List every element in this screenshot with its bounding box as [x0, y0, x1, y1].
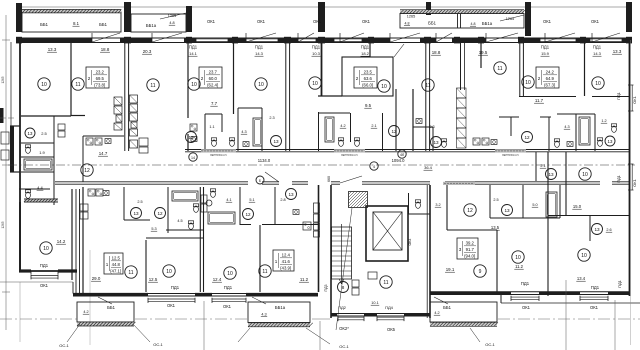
insulated wall segments	[201, 149, 236, 152]
bottom construction lines	[203, 301, 205, 350]
apartment info box 6	[273, 250, 294, 271]
svg-text:2: 2	[356, 76, 359, 81]
svg-text:13.3: 13.3	[613, 49, 622, 54]
top windows OK1	[196, 38, 228, 40]
wall y96 right apt	[519, 96, 576, 98]
circle 13	[25, 128, 35, 138]
wall x548	[547, 152, 549, 296]
svg-text:7.7: 7.7	[211, 101, 218, 106]
top exterior wall	[16, 37, 631, 39]
svg-text:13: 13	[288, 192, 294, 197]
svg-text:11: 11	[497, 66, 502, 72]
wall x275	[274, 187, 276, 225]
svg-text:ВЕНТБЛОК-0.5: ВЕНТБЛОК-0.5	[210, 155, 227, 157]
svg-text:10: 10	[515, 255, 521, 261]
top wall solid segments	[16, 38, 92, 42]
balcony door swing C	[252, 297, 266, 304]
svg-text:13: 13	[504, 208, 510, 213]
small room 2.6	[548, 215, 630, 217]
svg-text:ПД4: ПД4	[385, 305, 394, 310]
circle 10	[578, 249, 590, 261]
svg-text:44.8: 44.8	[112, 262, 121, 267]
svg-text:(67.3): (67.3)	[544, 82, 556, 87]
svg-text:ББ1а: ББ1а	[275, 305, 286, 310]
svg-text:13: 13	[433, 140, 439, 145]
left bay wall	[10, 126, 14, 172]
svg-text:(66.0): (66.0)	[362, 82, 374, 87]
svg-text:64.9: 64.9	[546, 76, 555, 81]
left bay fixture	[1, 132, 9, 144]
bathtub	[172, 191, 198, 201]
bottom dimension line y319	[0, 318, 77, 320]
svg-text:ПД1: ПД1	[312, 45, 321, 50]
svg-text:13: 13	[28, 131, 33, 136]
balcony door swing R	[434, 297, 448, 304]
toilet	[25, 190, 30, 193]
svg-text:ПД1: ПД1	[189, 45, 198, 50]
svg-text:ОК1: ОК1	[313, 19, 322, 24]
balcony BB1/BB1a top-right	[400, 14, 524, 29]
bath cluster 3 walls	[318, 112, 320, 151]
svg-text:ПД1: ПД1	[171, 285, 180, 290]
svg-text:4.3: 4.3	[261, 313, 266, 317]
svg-text:ОК1: ОК1	[257, 19, 266, 24]
svg-text:10: 10	[582, 172, 588, 178]
toilet	[611, 124, 616, 127]
svg-text:(43.9): (43.9)	[280, 265, 292, 270]
svg-text:10: 10	[525, 80, 531, 86]
svg-text:ОК5: ОК5	[387, 327, 396, 332]
toilet	[354, 138, 359, 141]
door swing corridor	[265, 172, 279, 182]
central axis line	[8, 164, 635, 166]
svg-text:4.2: 4.2	[434, 311, 439, 315]
svg-text:1265: 1265	[1, 221, 5, 228]
circle 9	[474, 265, 486, 277]
svg-text:11: 11	[75, 82, 80, 88]
svg-text:10: 10	[41, 82, 47, 88]
svg-text:ОК1: ОК1	[632, 178, 637, 186]
svg-text:ПД1: ПД1	[616, 174, 621, 183]
left wall face line	[10, 42, 12, 126]
svg-text:ВЕНТБЛОК-0.5: ВЕНТБЛОК-0.5	[341, 155, 358, 157]
balcony BB1 bottom-left	[77, 302, 134, 322]
room number circles top row	[38, 78, 50, 90]
svg-text:20.3: 20.3	[143, 49, 152, 54]
kitchen boxes apt2	[190, 124, 197, 131]
svg-text:ОС-1: ОС-1	[339, 344, 349, 349]
door swing wardrobe	[394, 44, 404, 57]
circle 10	[512, 251, 524, 263]
kitchen boxes bottom-left	[88, 189, 95, 196]
svg-text:660: 660	[327, 176, 331, 182]
vent boxes	[314, 203, 320, 213]
svg-text:24.2: 24.2	[546, 70, 555, 75]
right apt hall walls	[446, 185, 448, 230]
svg-text:ББ1: ББ1	[99, 22, 107, 27]
svg-text:ОК1: ОК1	[40, 283, 49, 288]
balcony BB1 top-left	[22, 12, 121, 32]
svg-text:ОК1: ОК1	[543, 19, 552, 24]
svg-text:2: 2	[201, 76, 204, 81]
svg-text:1094.0: 1094.0	[392, 158, 405, 163]
svg-text:19.5: 19.5	[479, 50, 488, 55]
svg-text:14.2: 14.2	[57, 239, 66, 244]
svg-text:39.2: 39.2	[466, 241, 475, 246]
toilet	[554, 139, 559, 142]
apartment info box 7	[457, 238, 478, 259]
svg-text:5.1: 5.1	[249, 198, 254, 202]
circle 10	[40, 242, 52, 254]
svg-text:2.1: 2.1	[371, 124, 376, 128]
svg-text:18.8: 18.8	[432, 50, 441, 55]
svg-text:12.4: 12.4	[282, 253, 291, 258]
circle 12	[243, 209, 254, 220]
svg-text:13: 13	[594, 227, 600, 232]
svg-text:12.5: 12.5	[149, 277, 158, 282]
wall y189	[19, 188, 50, 190]
svg-text:60.0: 60.0	[209, 76, 218, 81]
bath cluster 2 walls	[204, 114, 206, 151]
sink	[416, 119, 422, 124]
bath cluster 5 walls	[499, 116, 519, 118]
circle 12	[522, 132, 533, 143]
toilet	[441, 139, 446, 142]
svg-text:10: 10	[166, 269, 172, 275]
svg-text:ПД1: ПД1	[541, 45, 550, 50]
svg-text:19.1: 19.1	[446, 267, 455, 272]
axis bubbles	[189, 153, 197, 161]
wardrobe room outline	[342, 57, 393, 96]
svg-text:12: 12	[524, 135, 530, 140]
window OK1 left-low	[31, 275, 58, 277]
axis bubble	[256, 176, 264, 184]
svg-text:69.5: 69.5	[96, 76, 105, 81]
svg-text:ПД1: ПД1	[255, 45, 264, 50]
svg-text:1.1: 1.1	[209, 125, 214, 129]
svg-text:3.2: 3.2	[435, 203, 440, 207]
balcony hatch top-right	[400, 10, 524, 14]
svg-text:10: 10	[258, 82, 264, 88]
svg-text:14.3: 14.3	[255, 51, 264, 56]
hatched wall	[24, 199, 58, 202]
ventilation shaft column	[457, 88, 467, 98]
kitchen boxes right of shaft	[473, 138, 480, 145]
svg-text:(47.1): (47.1)	[110, 268, 122, 273]
stair block walls	[330, 185, 332, 318]
svg-text:3: 3	[459, 247, 462, 252]
apartment info box 5	[104, 253, 123, 274]
stair flight	[332, 227, 352, 279]
svg-text:(94.0): (94.0)	[464, 253, 476, 258]
svg-text:ОС-1: ОС-1	[153, 342, 163, 347]
svg-text:ПД1: ПД1	[616, 91, 621, 100]
stair windows	[338, 316, 364, 318]
circle 12 hall	[81, 164, 93, 176]
circle 13	[431, 137, 442, 148]
svg-text:ОС-1: ОС-1	[485, 342, 495, 347]
left bay fixture	[1, 150, 9, 160]
leader lines bottom	[67, 324, 80, 342]
svg-text:2.1: 2.1	[540, 164, 545, 168]
left margin dimension line	[5, 15, 7, 330]
svg-text:2.3: 2.3	[269, 116, 274, 120]
wall x396	[395, 89, 397, 151]
svg-text:5.0: 5.0	[532, 203, 537, 207]
svg-text:41.6: 41.6	[282, 259, 291, 264]
svg-text:ББ1: ББ1	[107, 305, 115, 310]
svg-text:ББ1: ББ1	[428, 21, 436, 26]
svg-text:ОК4: ОК4	[408, 239, 412, 246]
svg-text:12.4: 12.4	[213, 277, 222, 282]
svg-text:ПД3: ПД3	[324, 284, 328, 291]
circle 12	[155, 208, 166, 219]
svg-text:4.2: 4.2	[340, 124, 345, 128]
circle 13	[502, 205, 513, 216]
corridor top wall	[185, 149, 630, 151]
balcony door swings top	[92, 33, 120, 42]
kitchen boxes left apt	[86, 138, 93, 145]
svg-text:ББ1: ББ1	[40, 22, 48, 27]
circle 8	[338, 282, 349, 293]
svg-text:4: 4	[373, 165, 375, 169]
toilet	[25, 145, 30, 148]
svg-text:10.3: 10.3	[312, 51, 321, 56]
toilet WC	[415, 200, 420, 203]
svg-text:14: 14	[191, 156, 195, 160]
svg-text:29.0: 29.0	[92, 276, 101, 281]
apartment info box 1	[86, 67, 109, 88]
party wall x287	[285, 42, 287, 151]
svg-text:ПД1: ПД1	[521, 281, 530, 286]
circle 13	[605, 136, 615, 146]
wall y225	[240, 224, 251, 226]
svg-text:1265: 1265	[1, 76, 5, 83]
balcony hatch top-left	[22, 10, 121, 13]
right edge vertical windows	[628, 85, 630, 111]
apartment info box 2	[199, 67, 222, 88]
svg-text:4.8: 4.8	[169, 21, 174, 25]
svg-text:13.3: 13.3	[48, 47, 57, 52]
balcony divider	[457, 14, 459, 29]
svg-text:ПД1: ПД1	[361, 45, 370, 50]
circle 12	[186, 132, 197, 143]
svg-text:63.6: 63.6	[364, 76, 373, 81]
svg-text:36.4: 36.4	[424, 165, 433, 170]
svg-text:4.8: 4.8	[405, 22, 410, 26]
svg-text:91.7: 91.7	[466, 247, 475, 252]
toilet	[597, 138, 602, 141]
room 14.2 walls	[19, 202, 21, 271]
svg-text:4.2: 4.2	[83, 310, 88, 314]
toilet	[210, 189, 215, 192]
tall bathtub	[253, 118, 262, 146]
circle 11 lobby	[380, 276, 392, 288]
svg-text:11: 11	[425, 83, 430, 89]
svg-text:12: 12	[84, 168, 90, 174]
circle 13	[592, 224, 603, 235]
svg-text:15.9: 15.9	[541, 51, 550, 56]
stair WC	[408, 193, 410, 214]
svg-text:ОК1: ОК1	[522, 305, 531, 310]
elevator shaft	[366, 206, 408, 261]
apartment info box 3	[354, 67, 377, 88]
svg-text:12: 12	[157, 211, 163, 216]
shaft box	[201, 195, 207, 203]
stair wall inner line	[426, 185, 428, 318]
sink	[293, 210, 299, 215]
left exterior wall	[19, 38, 21, 271]
lower-right footprint edge	[500, 294, 502, 303]
bathtub 2	[208, 212, 235, 224]
svg-text:14.3: 14.3	[593, 51, 602, 56]
stair small boxes	[352, 280, 359, 287]
party wall x427	[425, 42, 427, 151]
wall x233	[233, 42, 235, 114]
svg-text:2.3: 2.3	[429, 125, 434, 129]
toilet	[188, 221, 193, 224]
svg-text:(73.8): (73.8)	[94, 82, 106, 87]
svg-text:ОК1: ОК1	[362, 19, 371, 24]
svg-text:ПД1: ПД1	[591, 285, 600, 290]
wall x188	[187, 42, 189, 118]
svg-text:ОК1: ОК1	[167, 303, 176, 308]
piers bottom wall	[73, 293, 148, 297]
vent stack on party wall x126	[114, 97, 122, 105]
svg-text:10: 10	[191, 82, 197, 88]
svg-text:2.5: 2.5	[493, 198, 498, 202]
svg-text:2: 2	[538, 76, 541, 81]
right cluster row2	[489, 185, 491, 218]
toilet	[338, 138, 343, 141]
svg-text:5.3: 5.3	[151, 227, 156, 231]
svg-text:18.2: 18.2	[361, 51, 370, 56]
svg-text:10.1: 10.1	[371, 301, 378, 305]
svg-text:14.7: 14.7	[99, 151, 108, 156]
shaft boxes	[80, 204, 88, 211]
leader arrow	[500, 15, 524, 21]
bottom windows	[148, 298, 195, 300]
leader arrow	[160, 13, 186, 19]
circle 12	[389, 126, 400, 137]
bottom right rooms	[496, 230, 498, 292]
svg-text:2.5: 2.5	[137, 200, 142, 204]
tall bathtub	[325, 117, 334, 142]
wall room 13.3/18.8	[70, 42, 72, 116]
right exterior wall	[629, 42, 631, 296]
long leader diagonal	[336, 208, 352, 330]
svg-text:13: 13	[273, 139, 279, 144]
axis wall x321	[321, 42, 323, 96]
svg-text:11.2: 11.2	[300, 277, 309, 282]
svg-text:23.7: 23.7	[209, 70, 218, 75]
svg-text:2: 2	[88, 76, 91, 81]
svg-text:ОК1: ОК1	[590, 305, 599, 310]
svg-text:ББ1а: ББ1а	[146, 23, 157, 28]
svg-text:4.8: 4.8	[471, 22, 476, 26]
svg-text:10: 10	[381, 84, 387, 90]
svg-text:14.1: 14.1	[189, 51, 198, 56]
circle 13	[271, 136, 282, 147]
svg-text:4.1: 4.1	[226, 198, 231, 202]
circle 13	[131, 208, 142, 219]
bathtub	[24, 159, 52, 170]
svg-text:ВЕНТБЛОК-0.5: ВЕНТБЛОК-0.5	[502, 155, 519, 157]
corridor bottom wall	[55, 181, 248, 183]
wall y96	[318, 95, 342, 97]
svg-text:ПД1: ПД1	[224, 285, 233, 290]
circle 12	[464, 204, 476, 216]
top wall pier stubs	[16, 3, 22, 32]
balcony BB1a second	[131, 14, 186, 32]
svg-text:11: 11	[128, 270, 133, 276]
insulated segment bottom corridor wall	[443, 182, 475, 185]
balcony BB1 bottom-right	[430, 302, 497, 322]
wall x240	[239, 187, 241, 225]
wall below room 13.3	[21, 115, 71, 117]
apartment info box 4	[536, 67, 559, 88]
svg-text:ПД1: ПД1	[617, 279, 622, 288]
svg-text:8.1: 8.1	[73, 21, 79, 26]
balcony BB1a bottom-center	[248, 302, 310, 323]
svg-text:12: 12	[245, 212, 251, 217]
svg-text:1134.0: 1134.0	[258, 158, 271, 163]
svg-text:ОС-1: ОС-1	[59, 343, 69, 348]
tall bathtub	[579, 117, 590, 145]
top wall piers	[16, 37, 22, 44]
svg-text:4б: 4б	[400, 153, 404, 157]
svg-text:9: 9	[479, 269, 482, 275]
svg-text:11: 11	[262, 269, 267, 275]
svg-text:13: 13	[548, 172, 554, 177]
toilet	[229, 138, 234, 141]
svg-text:ББ1: ББ1	[443, 305, 451, 310]
svg-text:2.6: 2.6	[606, 228, 611, 232]
svg-text:15.0: 15.0	[573, 204, 582, 209]
svg-text:13.4: 13.4	[577, 276, 586, 281]
svg-text:ОК1: ОК1	[632, 95, 637, 103]
sink	[243, 142, 249, 147]
svg-text:ОК1: ОК1	[223, 304, 232, 309]
svg-text:13.5: 13.5	[491, 225, 500, 230]
svg-text:1: 1	[275, 259, 278, 264]
svg-text:2.8: 2.8	[280, 198, 285, 202]
sink	[567, 142, 573, 147]
tall bathtub	[546, 192, 557, 217]
wall x370	[369, 42, 371, 57]
block west double wall	[75, 189, 77, 296]
party wall x126	[124, 42, 126, 151]
svg-text:1: 1	[106, 262, 109, 267]
svg-text:ПД1: ПД1	[40, 263, 49, 268]
svg-text:10: 10	[312, 81, 318, 87]
svg-text:4.5: 4.5	[177, 219, 182, 223]
stair door swing	[340, 176, 362, 183]
svg-text:10: 10	[581, 253, 587, 259]
step outline bottom-left	[0, 281, 73, 283]
svg-text:1265: 1265	[407, 15, 415, 19]
party wall x521	[519, 42, 521, 96]
svg-text:23.5: 23.5	[364, 70, 373, 75]
shaft box	[58, 124, 65, 130]
wall stub right	[71, 115, 85, 117]
svg-text:12: 12	[467, 208, 473, 214]
svg-text:11.7: 11.7	[535, 98, 544, 103]
bottom-left block walls	[82, 187, 84, 296]
svg-text:1.9: 1.9	[39, 150, 45, 155]
stove	[303, 222, 311, 230]
svg-text:10: 10	[43, 246, 49, 252]
